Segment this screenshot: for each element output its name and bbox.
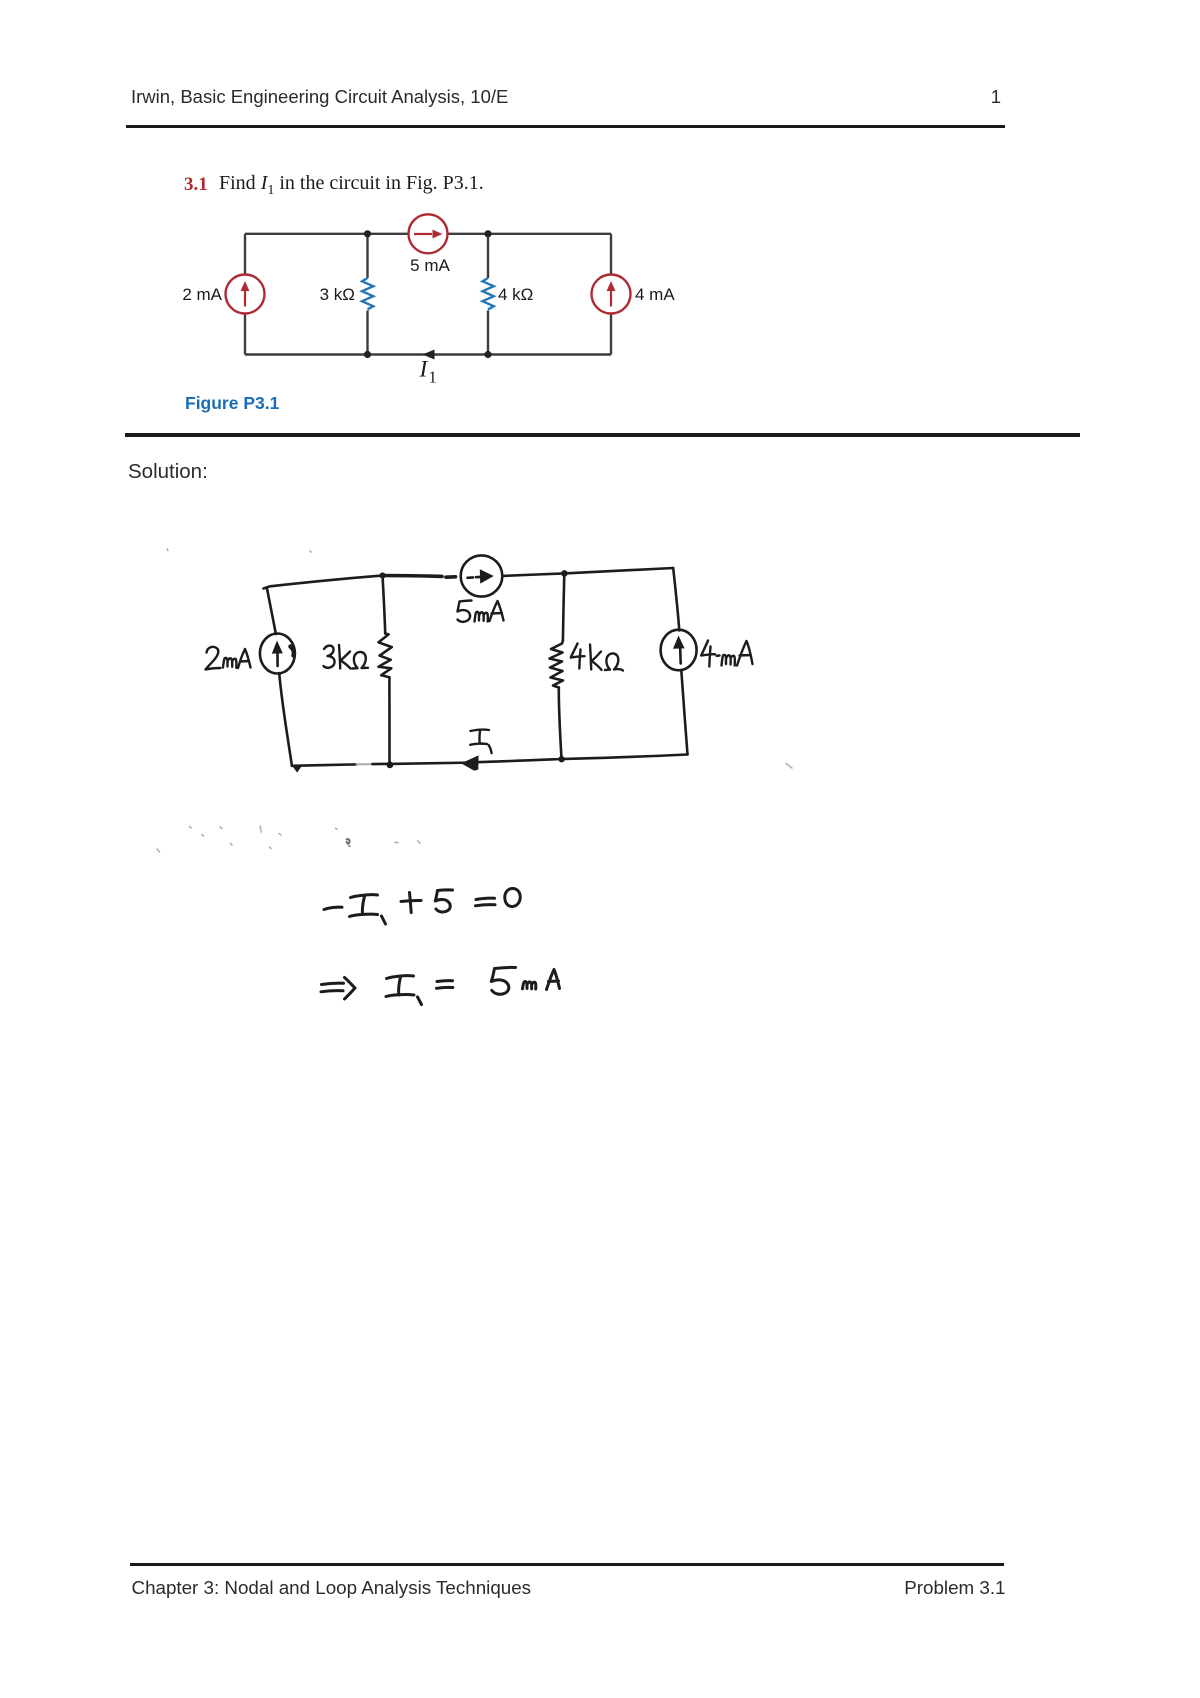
current I1 arrowhead handwritten	[461, 755, 479, 770]
figure caption Figure P3.1	[185, 393, 279, 414]
current source 5mA circle	[461, 555, 503, 596]
resistor 4k branch wire lower	[559, 688, 562, 760]
wire left edge upper	[267, 588, 276, 635]
resistor 3 kOhm zigzag	[362, 278, 373, 309]
current source 2mA circle	[260, 634, 295, 674]
eq1 digit 5	[435, 890, 452, 912]
wire bottom-right to node D	[562, 755, 688, 760]
wire node A to 5mA source	[383, 576, 456, 578]
wire 3k branch lower	[366, 311, 368, 355]
resistor 3k branch wire upper	[383, 576, 386, 634]
node dot bottom of 3k	[364, 351, 371, 358]
faint dot above figure mid	[310, 551, 311, 552]
label I1 handwritten	[470, 730, 491, 754]
current source 5 mA arrow	[414, 230, 443, 239]
eq1 plus sign	[401, 893, 421, 913]
wire top-left corner to node A	[264, 576, 383, 589]
label 4kOhm handwritten: Omega	[605, 653, 623, 670]
current source 5 mA circle	[409, 214, 448, 253]
header page number 1	[900, 88, 1001, 107]
node B dot	[561, 570, 568, 577]
wire left edge lower	[279, 673, 292, 766]
label 4kOhm handwritten: k	[590, 645, 602, 670]
wire 3k branch upper	[366, 234, 368, 278]
current I1 arrowhead on bottom wire	[423, 350, 435, 360]
eq2 digit 5	[491, 967, 515, 994]
current source 4mA circle	[661, 630, 697, 671]
label 2mA handwritten: m	[223, 658, 236, 668]
eq1 equals sign	[476, 898, 496, 906]
current source 4mA arrow	[679, 649, 682, 664]
current source 4 mA circle	[592, 275, 631, 314]
current source 2mA arrow	[276, 653, 279, 666]
node C dot	[387, 762, 394, 769]
label 2mA handwritten: 2	[206, 647, 221, 670]
eq1 digit 0	[505, 888, 520, 906]
eq2 unit m	[523, 982, 536, 989]
wire top left segment	[245, 233, 409, 235]
wire 4k branch lower	[487, 311, 489, 355]
faint tick bottom right of figure	[786, 764, 792, 769]
faint pencil marks row	[157, 849, 160, 852]
current source 5mA arrow	[468, 576, 481, 579]
current source 2 mA circle	[226, 275, 265, 314]
wire right edge upper	[610, 234, 612, 275]
eq1 I1	[350, 895, 386, 924]
resistor 4 kOhm zigzag	[483, 278, 494, 309]
label 3kOhm handwritten: 3	[324, 646, 335, 668]
label 4mA handwritten: A	[737, 641, 753, 666]
footer rule	[130, 1563, 1004, 1566]
resistor 4k zigzag	[550, 641, 564, 688]
wire bottom	[245, 353, 611, 355]
label 3kOhm handwritten: k	[339, 645, 351, 669]
problem statement text	[219, 172, 484, 199]
current source 2mA inner arc retrace	[291, 647, 294, 656]
wire node C to bottom-left corner	[292, 764, 357, 765]
resistor 4k branch wire upper	[563, 573, 564, 640]
wire 4k branch upper	[487, 234, 489, 278]
label 4mA handwritten: m	[722, 655, 735, 666]
label 4kOhm handwritten: 4	[571, 644, 585, 669]
node dot top of 3k	[364, 230, 371, 237]
eq2 implies arrow	[321, 978, 355, 1000]
eq2 unit A	[547, 970, 560, 990]
label 4mA handwritten: 4	[701, 641, 715, 667]
problem number 3.1	[184, 174, 208, 196]
wire 5mA source to node B	[504, 573, 565, 576]
wire node D to I1 arrow	[467, 759, 562, 762]
wire I1 arrow to node C	[390, 763, 478, 764]
node dot bottom of 4k	[484, 351, 491, 358]
node D dot	[558, 756, 564, 762]
label 5mA handwritten: A	[490, 601, 504, 621]
header rule	[126, 125, 1005, 128]
current source 4 mA arrow	[607, 281, 616, 307]
label 5mA handwritten: m	[475, 612, 488, 622]
faint dot above figure left	[167, 549, 168, 551]
wire left edge lower	[244, 314, 246, 355]
label 4mA handwritten: hyphen	[717, 654, 720, 657]
footer problem number	[805, 1579, 1006, 1598]
current source 2 mA arrow	[241, 281, 250, 307]
wire top right segment	[447, 233, 611, 235]
eq2 equals sign	[437, 981, 453, 989]
wire right edge lower	[681, 670, 687, 754]
Solution heading	[128, 462, 208, 483]
wire left edge upper	[244, 234, 246, 275]
eq2 I1	[386, 976, 422, 1005]
node A dot	[380, 573, 386, 579]
wire right edge upper	[673, 568, 679, 631]
eq1 minus sign	[324, 907, 342, 909]
wire node B to top-right corner	[564, 568, 673, 573]
middle rule	[125, 433, 1080, 437]
resistor 3k branch wire lower	[388, 677, 391, 764]
footer chapter title	[132, 1579, 532, 1598]
node dot top of 4k	[484, 230, 491, 237]
resistor 3k zigzag	[379, 634, 392, 678]
wire right edge lower	[610, 314, 612, 355]
label 2mA handwritten: A	[238, 649, 251, 668]
header book title	[131, 88, 508, 107]
label 5mA handwritten: 5	[458, 601, 472, 622]
label 3kOhm handwritten: Omega	[353, 652, 369, 669]
